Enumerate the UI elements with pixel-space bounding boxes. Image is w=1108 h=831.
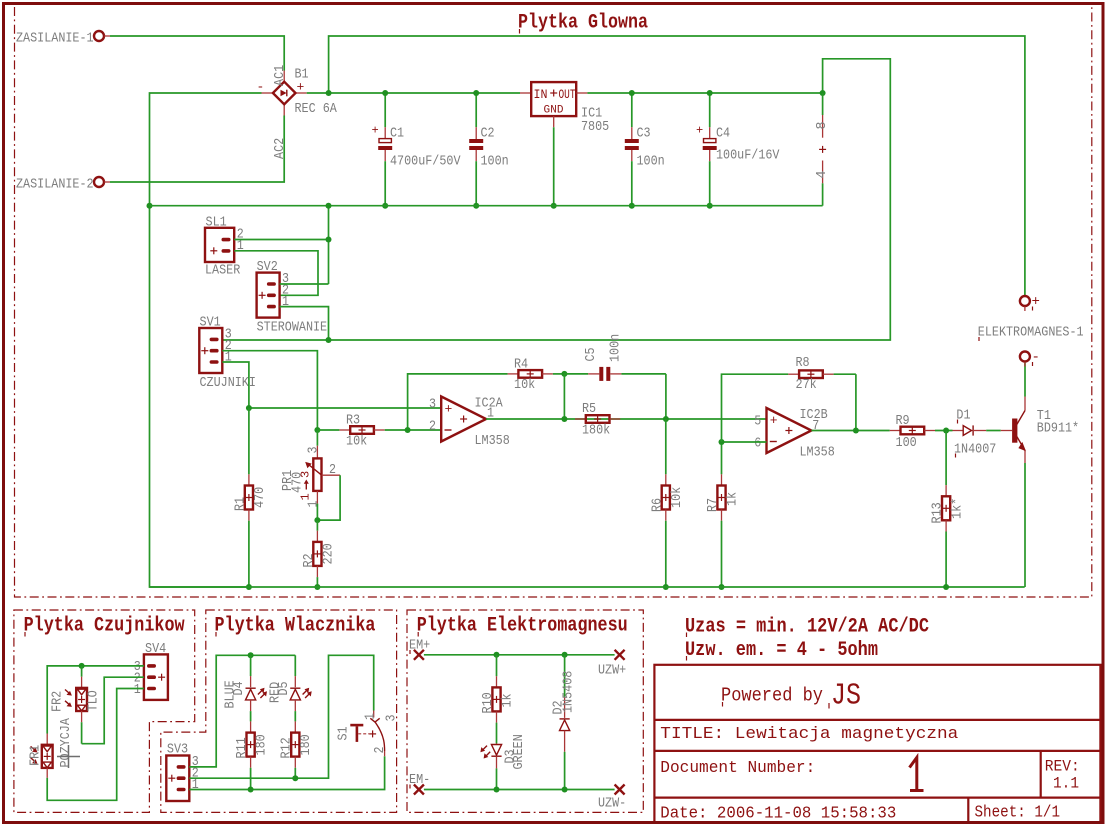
node junction R11 bottom [248,787,254,793]
svg-text:+: + [372,124,379,138]
led D5 RED [267,676,311,721]
node junction C4 top [707,90,713,96]
node junction C1 top [382,90,388,96]
svg-text:REV:: REV: [1045,758,1080,776]
wire C5 right down to output line [665,374,667,419]
node junction D2 bottom [562,787,568,793]
svg-text:R1: R1 [233,497,249,511]
wire IC2A output line [486,418,766,420]
svg-text:Plytka Czujnikow: Plytka Czujnikow [24,615,186,638]
svg-text:R4: R4 [514,357,528,373]
wire D5 top drop [294,655,296,676]
terminal ZASILANIE-1 [16,31,110,47]
svg-text:B1: B1 [295,67,309,83]
wire SL1 pin1 to SV2 pin2 [234,251,318,295]
resistor R1 [233,408,269,587]
svg-text:LM358: LM358 [800,445,835,461]
svg-text:1: 1 [134,682,141,698]
node junction C3 top [629,90,635,96]
resistor R3 [317,413,441,450]
svg-text:SV3: SV3 [167,742,188,758]
svg-text:AC2: AC2 [272,138,288,159]
wire IC1 GND to rail [553,127,555,206]
diode D2 1N5408 [551,655,577,790]
svg-text:1k: 1k [500,693,516,707]
svg-text:ZASILANIE-1: ZASILANIE-1 [16,31,94,47]
title Plytka Wlacznika [215,615,376,638]
svg-text:R11: R11 [234,737,250,758]
bridge rectifier B1 [257,65,338,159]
svg-text:REC 6A: REC 6A [295,101,338,117]
svg-text:BD911*: BD911* [1037,421,1079,437]
ground rail1 [150,205,823,207]
wire feedback column to R4/C5 [408,374,508,430]
svg-text:SV2: SV2 [257,259,278,275]
node junction R6 bottom [663,584,669,590]
svg-text:EM+: EM+ [409,638,430,654]
svg-text:1: 1 [225,350,232,366]
node junction output/R8 [853,428,859,434]
solder point EM+ [409,638,430,660]
svg-text:1.1: 1.1 [1053,775,1079,793]
resistor R4 [508,357,565,394]
transistor T1 BD911 [1001,397,1079,464]
node junction top rail [326,90,332,96]
solder point UZW- [598,785,626,812]
node junction pin6/R7/R8 [719,439,725,445]
svg-text:8: 8 [814,122,830,130]
wire SV1 pin1 to R1 column [222,362,249,408]
node junction R1 top [246,405,252,411]
svg-text:CZUJNIKI: CZUJNIKI [200,375,256,391]
wire SV4 pin2 to FR2 bottom [82,677,144,744]
svg-text:10k: 10k [514,377,535,393]
svg-text:C3: C3 [637,126,651,142]
photodiode FR2 TLO [50,666,102,744]
svg-text:C1: C1 [390,126,404,142]
svg-text:Date: 2006-11-08 15:58:33: Date: 2006-11-08 15:58:33 [660,805,896,824]
resistor R13 [930,431,966,588]
svg-text:+: + [445,402,453,417]
title Plytka Elektromagnesu [417,615,628,638]
node junction at 822/93 [820,90,826,96]
led D4 BLUE [223,676,268,721]
switch S1 [336,711,400,757]
svg-text:2: 2 [429,419,436,435]
board outline Plytka Glowna (dash-dot) [15,4,1092,597]
capacitor C2 [469,93,509,206]
node junction C3 bottom [629,203,635,209]
node junction D4 top [248,652,254,658]
svg-text:Powered by: Powered by [721,685,823,707]
svg-text:3: 3 [384,715,400,722]
svg-text:D1: D1 [956,407,970,423]
node junction C2 top [473,90,479,96]
svg-text:R10: R10 [480,692,496,713]
svg-text:220: 220 [321,543,337,564]
svg-text:1: 1 [299,493,313,500]
svg-text:100n: 100n [481,154,509,170]
svg-text:5: 5 [754,414,761,430]
node junction R10 top [494,652,500,658]
node junction R13 bottom [943,584,949,590]
svg-text:R3: R3 [346,413,360,429]
wire SV1 pin2 to R3 column [222,351,317,430]
wire T1 collector to minus terminal [1024,362,1026,397]
connector SL1 LASER [205,215,244,279]
svg-text:2: 2 [372,747,388,754]
capacitor C3 [625,93,665,206]
node junction R12 bottom [292,775,298,781]
title block Powered by JS [721,679,861,714]
capacitor C4 [696,93,780,206]
svg-text:STEROWANIE: STEROWANIE [257,320,328,336]
svg-text:1: 1 [192,777,199,793]
title block Date row [660,804,1060,824]
capacitor C1 [372,93,462,206]
diode D1 1N4007 [953,407,1001,457]
svg-text:R9: R9 [896,413,910,429]
voltage regulator IC1 7805 [520,82,609,135]
svg-text:D4: D4 [231,681,247,695]
capacitor C5 [564,334,666,381]
node junction R9/D1/R13 [943,428,949,434]
note Uzas [685,616,929,639]
terminal ELEKTROMAGNES minus [1020,350,1040,367]
wire D4 top drop [250,655,252,676]
resistor R6 [649,419,685,587]
svg-text:ELEKTROMAGNES-1: ELEKTROMAGNES-1 [978,325,1084,341]
label ELEKTROMAGNES-1 [978,325,1084,342]
node junction rail1 x328 [326,203,332,209]
svg-text:IC2B: IC2B [800,407,828,423]
svg-text:R5: R5 [582,401,596,417]
svg-text:LASER: LASER [205,263,241,279]
wire left ground column down to bottom rail [150,206,249,587]
led D3 GREEN [480,734,526,789]
board outline Plytka Wlacznika (dash-dot) [161,610,397,812]
svg-text:3: 3 [299,471,313,478]
note Uzw [685,639,878,662]
resistor R12 [279,721,315,778]
svg-text:3: 3 [429,397,436,413]
wire SV4 pin3 to FR1 top [47,666,144,734]
svg-text:180k: 180k [582,423,610,439]
svg-text:100: 100 [896,435,917,451]
svg-text:UZW+: UZW+ [598,663,626,679]
svg-text:1: 1 [363,713,379,720]
wire EM+ top line [424,654,615,656]
svg-text:JS: JS [831,679,861,714]
svg-text:180: 180 [254,734,270,755]
svg-text:470: 470 [252,487,268,508]
svg-text:FR1: FR1 [28,745,44,766]
svg-text:1k: 1k [725,492,741,506]
resistor R2 [301,520,337,587]
svg-text:EM-: EM- [409,772,430,788]
connector SV4 [134,641,168,700]
connector SV2 STEROWANIE [257,259,328,336]
svg-text:GREEN: GREEN [511,734,527,769]
board outline Plytka Czujnikow (dash-dot) [14,610,195,812]
svg-text:7805: 7805 [581,119,609,135]
op-amp IC2A [429,396,510,450]
connector SV1 CZUJNIKI [199,315,256,392]
op-amp power pins IC2P [814,93,830,206]
board outline Plytka Elektromagnesu (dash-dot) [407,610,643,812]
node junction on output line [561,416,567,422]
wire +5V over-route to sensor supply line [222,59,890,340]
svg-text:UZW-: UZW- [598,796,626,812]
svg-text:Plytka Elektromagnesu: Plytka Elektromagnesu [417,615,628,638]
svg-text:Plytka Glowna: Plytka Glowna [518,12,648,35]
node junction R1 bottom [246,584,252,590]
terminal ZASILANIE-2 [16,177,110,193]
svg-text:IC2A: IC2A [475,396,504,412]
title Plytka Glowna [518,12,648,35]
svg-text:Uzw. em. = 4 - 5ohm: Uzw. em. = 4 - 5ohm [685,639,878,662]
svg-text:10k: 10k [346,434,367,450]
node junction C5/R5 right [663,416,669,422]
svg-text:1N4007: 1N4007 [954,441,996,457]
resistor R9 [890,413,953,451]
wire SL1 pin2 to gnd column [234,239,328,241]
op-amp IC2B [754,407,835,461]
title block frame [654,665,1100,823]
svg-text:OUT: OUT [559,87,576,102]
svg-text:100uF/16V: 100uF/16V [716,148,780,164]
svg-text:100n: 100n [637,154,665,170]
node junction SL1 pin2 / SV2 pin3 column [326,237,332,243]
svg-text:2: 2 [329,462,336,478]
svg-text:TITLE: Lewitacja magnetyczna: TITLE: Lewitacja magnetyczna [660,725,958,744]
wire SV4 pin1 to FR1 bottom [47,689,144,801]
node junction R2 bottom [314,584,320,590]
svg-text:1N5408: 1N5408 [561,671,577,713]
svg-text:S1: S1 [336,726,352,740]
connector SV3 [166,742,198,802]
wire SV3 pin1 bottom line [189,756,384,789]
photodiode FR1 POZYCJA [28,718,75,778]
resistor R10 [480,655,516,744]
svg-text:Uzas = min. 12V/2A AC/DC: Uzas = min. 12V/2A AC/DC [685,616,929,639]
svg-text:10k: 10k [669,487,685,508]
svg-text:100n: 100n [608,334,624,362]
wire bridge minus to left ground column [150,93,262,206]
svg-text:C4: C4 [716,126,730,142]
node junction left rail / ground rail1 [147,203,153,209]
wire node down to output line [563,374,565,419]
node junction PR1 pin1 [314,517,320,523]
origin cross marker [57,745,80,768]
svg-text:POZYCJA: POZYCJA [58,718,74,768]
svg-text:SV4: SV4 [145,641,166,657]
svg-text:1k*: 1k* [950,498,966,519]
node junction feedback at pin2 [405,427,411,433]
svg-text:D5: D5 [276,681,292,695]
svg-text:R2: R2 [301,553,317,567]
wire R8 right down to output [855,374,857,430]
wire SV3 pin2 line to switch riser [189,655,373,778]
node junction R4/C5 [561,371,567,377]
wire SV2 pin3 stub [280,283,329,285]
svg-text:+: + [770,413,778,428]
svg-text:ZASILANIE-2: ZASILANIE-2 [16,177,94,193]
wire T1 emitter to ground rail2 [1024,463,1026,587]
svg-text:R8: R8 [796,355,810,371]
wire ZASILANIE-2 to bridge AC2 [110,116,284,183]
wire IC2B pin6 line [722,441,767,443]
svg-text:Sheet: 1/1: Sheet: 1/1 [975,804,1061,823]
svg-text:C2: C2 [481,126,495,142]
svg-text:TLO: TLO [86,690,102,711]
svg-text:Plytka Wlacznika: Plytka Wlacznika [215,615,376,638]
svg-text:27k: 27k [796,377,817,393]
svg-text:GND: GND [544,105,564,117]
wire gnd column rail1 to SV2 pin3 [328,206,330,284]
node junction C4 bottom [707,203,713,209]
node junction IC1 gnd [551,203,557,209]
wire SV3 pin3 to led supply [189,655,295,767]
wire +V rail bridge to IC1 [307,92,520,94]
svg-text:SV1: SV1 [200,315,221,331]
svg-text:6: 6 [754,436,761,452]
node junction R3 left [314,427,320,433]
svg-text:4700uF/50V: 4700uF/50V [390,154,461,170]
title Plytka Czujnikow [24,615,186,638]
svg-text:3: 3 [306,447,322,454]
solder point EM- [409,772,430,795]
wire top rail from +V node to electromagnet plus [329,36,1025,296]
title block Document Number row [660,758,1080,793]
resistor R11 [234,721,270,789]
svg-text:Document Number:: Document Number: [660,759,815,778]
node junction C2 bottom [473,203,479,209]
node junction FR2 branch [79,663,85,669]
resistor R7 [705,442,741,587]
svg-text:1: 1 [306,501,322,508]
node junction R7 bottom [719,584,725,590]
svg-text:AC1: AC1 [272,65,288,86]
svg-text:1: 1 [282,294,289,310]
wire EM- bottom line [424,789,615,791]
wire IC2B output line [811,430,889,432]
svg-text:+: + [696,124,703,138]
svg-text:LM358: LM358 [475,433,510,449]
resistor R8 [788,355,856,393]
solder point UZW+ [598,650,626,679]
title block TITLE row [660,725,958,744]
resistor R5 [575,401,620,439]
svg-text:180: 180 [298,734,314,755]
svg-text:R6: R6 [649,498,665,512]
svg-text:IN: IN [534,87,548,102]
node junction C1 bottom [382,203,388,209]
ground rail2 [150,586,1025,588]
svg-text:R13: R13 [930,502,946,523]
svg-text:SL1: SL1 [206,215,227,231]
wire +5V rail IC1 to end [587,92,822,94]
svg-text:4: 4 [814,171,830,179]
wire SV2 pin1 to +5 line [280,307,329,340]
wire ZASILANIE-1 to bridge [110,36,284,71]
svg-text:R7: R7 [705,498,721,512]
svg-text:FR2: FR2 [50,691,66,712]
wire pin3 line to IC2A plus input [249,407,441,409]
wire R8 feedback left column [722,374,789,442]
node junction D2 top [562,652,568,658]
svg-text:C5: C5 [583,347,599,361]
node junction SV2 pin1 on +5 line [326,337,332,343]
node junction D3 bottom [494,787,500,793]
terminal ELEKTROMAGNES plus [1020,294,1040,311]
wire PR1 wiper to pin1 [317,475,340,520]
potentiometer PR1 [280,430,340,520]
svg-text:R12: R12 [279,737,295,758]
